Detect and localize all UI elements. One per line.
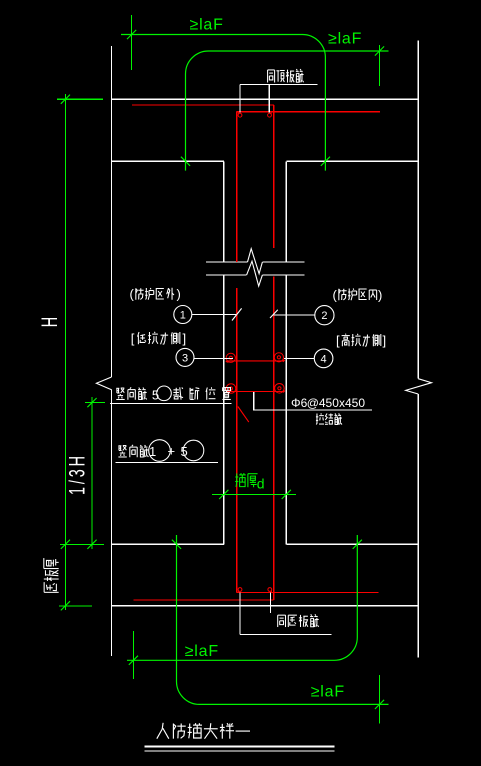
svg-text:≥laF: ≥laF <box>328 31 362 48</box>
bottom slab bottom surface line <box>112 605 419 607</box>
tie bar upper <box>227 360 285 362</box>
top slab soffit right <box>286 160 418 162</box>
underline of top label <box>240 84 318 86</box>
label: same-as-top-slab-bars text <box>268 70 275 83</box>
leader from lower tie to label <box>253 392 255 410</box>
top slab bar outer side (left, low-resistance) <box>132 104 274 106</box>
top slab top surface line <box>112 98 419 100</box>
bar break slash at 2 <box>270 310 278 318</box>
tick bottom-left dimension <box>129 656 138 665</box>
bar break slash at 1 <box>232 308 242 320</box>
bottom slab top left <box>112 543 224 545</box>
top right anchorage bar (bends left over slab) <box>121 35 325 171</box>
svg-text:): ) <box>177 287 181 302</box>
underline of bars label <box>116 461 219 463</box>
tick at bottom-right bar leg <box>353 540 362 549</box>
svg-text:]: ] <box>383 333 387 348</box>
callout circle 1 <box>174 306 192 324</box>
callout circle 2 <box>315 306 334 325</box>
svg-text:3: 3 <box>182 352 188 364</box>
underline of bottom label <box>240 633 332 635</box>
bottom slab bar inner (right side) <box>237 592 379 594</box>
extension line top-right <box>379 45 381 86</box>
bar 5 cutoff mark <box>238 407 249 423</box>
wall right face upper segment <box>285 161 287 262</box>
wall left face upper segment <box>223 161 225 262</box>
title underline double <box>144 745 334 747</box>
svg-text:1: 1 <box>180 310 186 322</box>
tick top-right dimension <box>375 46 384 55</box>
tick bottom-right dimension <box>375 700 384 709</box>
extension line top-left <box>131 15 133 70</box>
leader from circle 1 <box>192 314 236 316</box>
svg-text:[: [ <box>131 331 135 346</box>
leader to left top hook <box>239 85 241 113</box>
tick at top-left bar leg <box>181 157 190 166</box>
top slab soffit left <box>112 160 224 162</box>
label: same as bottom slab bars <box>278 615 286 627</box>
leader from circle 3 <box>194 357 233 359</box>
hooked top of wall bar left <box>238 113 242 117</box>
extension line at bottom slab top <box>60 543 104 545</box>
svg-text:(: ( <box>130 287 135 302</box>
top left anchorage bar (bends right) <box>186 51 389 171</box>
svg-text:x450: x450 <box>339 396 365 410</box>
leader from circle 2 <box>274 314 315 316</box>
svg-text:d: d <box>257 476 265 492</box>
label: vertical bar 5 cutoff position <box>116 388 124 399</box>
callout circle 3 <box>176 348 194 366</box>
svg-text:@450: @450 <box>307 396 340 410</box>
svg-text:Φ6: Φ6 <box>291 396 308 410</box>
wall right face lower segment <box>285 275 287 544</box>
bottom left anchorage bar <box>177 535 389 704</box>
wall left main bar (continuous with top inner bar) <box>236 112 238 262</box>
extension line bottom-left <box>132 631 134 679</box>
wall left face lower segment <box>223 275 225 544</box>
1/3H dimension line <box>91 397 93 549</box>
svg-text:≥laF: ≥laF <box>190 17 224 34</box>
hooked bottom of wall bar left <box>238 588 242 592</box>
wall thickness text <box>235 473 246 487</box>
extension line at bar cutoff <box>85 402 105 404</box>
svg-text:[: [ <box>336 333 340 348</box>
wall break symbol lower line <box>206 274 247 276</box>
underline of tie label <box>253 409 372 411</box>
leader from left bottom hook <box>239 593 241 635</box>
svg-text:(: ( <box>333 288 338 303</box>
tie bar lower <box>227 391 285 393</box>
H dimension line <box>64 94 66 610</box>
right slab cut edge with break <box>417 41 419 379</box>
svg-text:4: 4 <box>321 353 327 365</box>
label: vertical bars 1 plus 5 <box>118 446 126 457</box>
underline of cutoff label <box>110 403 231 405</box>
bottom slab thickness text (rotated) <box>44 558 59 568</box>
left slab cut edge with break <box>111 46 113 377</box>
tick top-left dimension <box>127 30 136 39</box>
extension line at bottom slab bottom <box>59 605 92 607</box>
tick at top-right bar leg <box>321 157 330 166</box>
extension line at top slab level <box>57 98 103 100</box>
hooked top of wall bar right <box>268 113 272 117</box>
leader from right bottom hook <box>270 593 272 614</box>
svg-text:1/3H: 1/3H <box>64 453 89 495</box>
extension line bottom-right <box>379 675 381 724</box>
top slab bar inner side (right) <box>237 111 380 113</box>
H dim text <box>37 317 62 327</box>
bottom right anchorage bar <box>127 535 357 660</box>
svg-text:+: + <box>168 444 176 459</box>
leader to right top hook <box>268 85 270 113</box>
title text <box>157 723 169 739</box>
callout circle 4 <box>314 349 333 368</box>
svg-text:]: ] <box>183 331 187 346</box>
svg-text:≥laF: ≥laF <box>311 683 345 700</box>
svg-text:2: 2 <box>321 310 327 322</box>
tick at bottom-left bar leg <box>172 540 181 549</box>
svg-text:H: H <box>37 317 62 327</box>
svg-text:): ) <box>378 288 382 303</box>
bottom slab bar from left bending up <box>133 599 273 601</box>
hooked bottom of wall bar right <box>268 588 272 592</box>
tie bar name text <box>316 413 324 424</box>
1/3H dim text <box>64 453 89 495</box>
leader from circle 4 <box>284 357 314 359</box>
svg-text:≥laF: ≥laF <box>185 643 219 660</box>
wall break symbol upper line <box>206 261 248 263</box>
wall right main bar (continuous with top bar) <box>273 105 275 248</box>
wall thickness dimension line <box>212 493 296 495</box>
bottom slab top right <box>286 543 418 545</box>
